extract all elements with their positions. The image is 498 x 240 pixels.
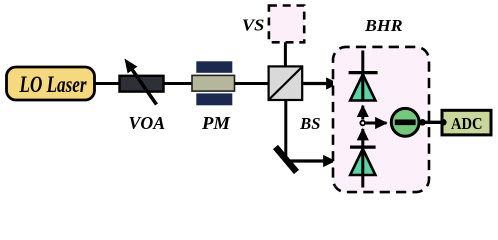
subtractor circle: [391, 108, 419, 136]
PM label: [201, 113, 231, 133]
phase modulator PM body: [192, 75, 235, 91]
BHR dashed box: [333, 47, 429, 192]
svg-text:VS: VS: [242, 15, 265, 34]
arrow up to node: [361, 129, 364, 146]
LO Laser label: [19, 72, 88, 97]
arrow mirror to BHR lower: [286, 159, 335, 162]
BS diagonal: [270, 68, 302, 100]
beam splitter BS: [269, 66, 303, 100]
wire BS to VS: [284, 42, 287, 67]
ADC label: [451, 114, 483, 133]
phase modulator PM bottom electrode: [196, 93, 232, 105]
VOA label: [129, 113, 166, 133]
wire laser to VOA: [94, 82, 121, 85]
arrow BS to BHR upper: [302, 82, 337, 85]
LO Laser box: [7, 67, 95, 100]
svg-text:BS: BS: [299, 114, 320, 133]
svg-text:ADC: ADC: [451, 114, 483, 133]
wire BS down to mirror: [284, 100, 287, 161]
photodiode PD1 lead through: [361, 51, 364, 102]
photodiode PD2 lead through: [361, 147, 364, 188]
photodiode PD1 cathode bar: [349, 71, 378, 74]
photodiode PD2 cathode bar: [350, 146, 376, 149]
subtractor minus sign: [395, 120, 416, 126]
wire PM to BS: [235, 82, 270, 85]
node junction circle: [360, 121, 365, 126]
svg-text:LO Laser: LO Laser: [19, 72, 88, 97]
attenuator VOA body: [120, 76, 164, 92]
photodiode PD2 triangle: [350, 149, 375, 175]
wire subtractor to ADC: [419, 121, 443, 124]
BS label: [299, 114, 320, 133]
svg-text:VOA: VOA: [129, 113, 166, 133]
attenuator VOA arrowhead: [125, 59, 138, 74]
junction dot right: [440, 119, 447, 126]
VS label: [242, 15, 265, 34]
svg-text:PM: PM: [201, 113, 231, 133]
attenuator VOA arrow: [131, 68, 157, 105]
mirror: [276, 147, 297, 172]
BHR label: [364, 16, 403, 35]
svg-text:BHR: BHR: [364, 16, 403, 35]
photodiode PD1 triangle: [350, 74, 375, 100]
arrow up to PD1: [361, 106, 364, 120]
arrow node to subtractor: [365, 122, 386, 125]
phase modulator PM top electrode: [196, 61, 232, 73]
wire VOA to PM: [164, 82, 194, 85]
ADC box: [442, 110, 491, 135]
VS dashed box: [269, 6, 304, 43]
junction dot left: [419, 119, 426, 126]
